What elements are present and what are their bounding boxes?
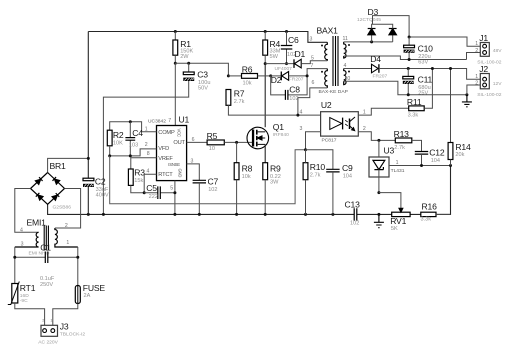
- bridge rectifier BR1: [31, 173, 65, 205]
- svg-text:2: 2: [42, 318, 44, 322]
- BR1 diode bottom-left: [36, 193, 43, 200]
- wire R10/C9 node line: [306, 150, 333, 170]
- svg-text:R10: R10: [310, 162, 326, 172]
- resistor R2: [107, 130, 112, 146]
- wire source to R9: [264, 144, 266, 162]
- node R4 bottom / drain line: [264, 62, 267, 65]
- svg-text:2A: 2A: [84, 293, 91, 299]
- wire RTCT pin4: [144, 174, 156, 193]
- svg-text:C11: C11: [418, 75, 433, 85]
- wire BR1 left AC to EMI pin4: [15, 189, 39, 233]
- node R10 top: [304, 148, 307, 151]
- wire left HV rail down to C2: [87, 32, 89, 179]
- svg-text:FUSE: FUSE: [83, 283, 106, 293]
- svg-text:C5: C5: [146, 183, 157, 193]
- capacitor C4: [129, 122, 131, 156]
- svg-text:R7: R7: [234, 88, 245, 98]
- svg-text:5: 5: [311, 55, 314, 61]
- node C4 top: [129, 120, 132, 123]
- ground at U3: [374, 214, 384, 227]
- svg-text:J3: J3: [60, 321, 69, 331]
- wire C3 bottom to left gnd drop: [103, 81, 188, 214]
- svg-text:C7: C7: [208, 176, 219, 186]
- node U3 anode / RV1 wiper branch: [377, 191, 380, 194]
- node gate/R8: [235, 141, 238, 144]
- thermistor RT1: [12, 284, 18, 304]
- node R4 top: [264, 30, 267, 33]
- wire BR1 plus to HV rail: [48, 158, 89, 172]
- resistor R1: [174, 32, 176, 41]
- resistor R10: [303, 163, 308, 180]
- svg-text:3W: 3W: [270, 180, 279, 186]
- connector J2: [480, 74, 489, 89]
- svg-text:OUT: OUT: [173, 140, 185, 146]
- svg-text:C3: C3: [197, 70, 208, 80]
- svg-text:2.7k: 2.7k: [394, 145, 405, 151]
- inductor EMI1 core: [44, 226, 48, 251]
- wire R1 bottom to R7 top: [175, 63, 228, 76]
- node R7/R6: [227, 74, 230, 77]
- svg-text:D4: D4: [370, 54, 381, 64]
- wire pin11 to D3 anodes: [344, 41, 393, 43]
- capacitor C7: [193, 180, 206, 183]
- svg-text:4: 4: [20, 228, 23, 234]
- svg-text:2: 2: [475, 48, 478, 54]
- svg-text:104: 104: [343, 173, 352, 179]
- capacitor C13 in rail: [354, 208, 357, 220]
- resistor R3: [128, 169, 133, 185]
- wire VREF to R3: [131, 158, 157, 169]
- winding secondary 4-10: [344, 69, 346, 85]
- svg-text:R14: R14: [455, 142, 471, 152]
- wire COMP network top: [110, 122, 157, 132]
- potentiometer RV1: [392, 212, 410, 216]
- wire OUT to R5: [187, 141, 208, 143]
- svg-text:C8: C8: [289, 85, 300, 95]
- svg-text:7: 7: [311, 63, 314, 69]
- svg-text:Q1: Q1: [273, 122, 284, 132]
- svg-text:R2: R2: [113, 130, 124, 140]
- svg-text:BAX-KE DAP: BAX-KE DAP: [319, 89, 348, 95]
- svg-text:COMP: COMP: [158, 130, 175, 136]
- diode D2: [271, 75, 282, 77]
- svg-text:1: 1: [396, 160, 399, 166]
- svg-text:UC3842: UC3842: [148, 119, 166, 125]
- optocoupler U2 PC817: [321, 112, 359, 136]
- wire pin10 / 0V line: [344, 81, 467, 95]
- resistor R4: [264, 32, 266, 41]
- wire U2 pin3 to R10 node: [306, 132, 321, 150]
- wire xfmr pin6 to U2 pin4: [298, 88, 327, 115]
- svg-text:1: 1: [475, 74, 478, 80]
- capacitor C11: [407, 69, 409, 77]
- svg-text:U2: U2: [321, 100, 332, 110]
- diode D4: [372, 64, 379, 73]
- svg-text:TL431: TL431: [391, 168, 405, 174]
- svg-text:R5: R5: [207, 131, 218, 141]
- svg-text:FR207: FR207: [373, 74, 388, 80]
- svg-text:ISNSE: ISNSE: [168, 162, 180, 167]
- svg-text:10k: 10k: [243, 81, 252, 87]
- wire top HV rail: [88, 32, 327, 43]
- wire feedback gray line: [110, 150, 306, 204]
- svg-text:11: 11: [343, 36, 348, 42]
- node U3 cathode: [377, 139, 380, 142]
- svg-text:4: 4: [300, 109, 303, 115]
- resistor R16: [421, 212, 436, 216]
- capacitor C10: [408, 37, 410, 45]
- transformer BAX1 core: [333, 36, 338, 86]
- svg-text:U3: U3: [384, 145, 395, 155]
- svg-text:GND: GND: [178, 169, 183, 178]
- svg-text:102: 102: [208, 187, 217, 193]
- wire U3 ref line: [389, 165, 451, 167]
- node C6 top: [285, 30, 288, 33]
- svg-text:EMI1: EMI1: [27, 217, 47, 227]
- svg-text:1: 1: [50, 318, 52, 322]
- svg-text:BR1: BR1: [50, 161, 67, 171]
- svg-text:2: 2: [145, 142, 148, 148]
- svg-text:1: 1: [66, 240, 69, 246]
- svg-text:R9: R9: [270, 163, 281, 173]
- wire D1 anode line: [265, 63, 293, 65]
- svg-text:C12: C12: [429, 148, 445, 158]
- wire EMI pin3 down: [14, 247, 16, 284]
- resistor R7: [226, 90, 231, 106]
- svg-text:2: 2: [65, 223, 68, 229]
- node D2 anode / C8: [269, 74, 272, 77]
- capacitor C2: [83, 178, 94, 181]
- svg-text:R3: R3: [134, 168, 145, 178]
- capacitor C12: [415, 152, 428, 155]
- winding EMI right: [55, 228, 78, 247]
- svg-text:5K: 5K: [391, 226, 398, 232]
- node R1 bottom: [174, 62, 177, 65]
- svg-text:TBLOCK-I2: TBLOCK-I2: [60, 331, 86, 337]
- capacitor C6: [286, 32, 288, 64]
- svg-text:102: 102: [289, 96, 298, 102]
- resistor R6: [228, 75, 241, 77]
- svg-text:3.3k: 3.3k: [421, 217, 432, 223]
- svg-text:R11: R11: [407, 97, 422, 107]
- svg-text:R6: R6: [242, 65, 253, 75]
- svg-text:C1: C1: [40, 242, 51, 252]
- winding primary aux 7-6: [325, 69, 328, 88]
- svg-text:3: 3: [300, 126, 303, 132]
- svg-text:5: 5: [170, 185, 173, 191]
- winding EMI left: [15, 232, 39, 247]
- svg-text:10k: 10k: [242, 174, 251, 180]
- svg-text:3.3k: 3.3k: [408, 113, 419, 119]
- wire U2 pin2 to U3/R13: [358, 132, 395, 141]
- svg-text:15k: 15k: [134, 178, 143, 184]
- svg-text:R13: R13: [394, 129, 410, 139]
- svg-text:7: 7: [168, 118, 171, 124]
- fuse FUSE: [75, 286, 80, 304]
- winding secondary 11-9: [344, 42, 346, 58]
- svg-text:C6: C6: [288, 35, 299, 45]
- capacitor C1: [15, 256, 78, 258]
- svg-text:FR207: FR207: [289, 77, 304, 83]
- svg-text:VCC: VCC: [177, 129, 182, 137]
- svg-text:2: 2: [363, 126, 366, 132]
- svg-text:1: 1: [363, 109, 366, 115]
- connector J1: [480, 43, 489, 57]
- svg-text:G2SB86: G2SB86: [53, 205, 72, 211]
- svg-text:AC 220V: AC 220V: [38, 339, 58, 345]
- svg-text:BAX1: BAX1: [317, 26, 339, 36]
- wire EMI pin1 down: [77, 247, 79, 286]
- svg-text:RTCT: RTCT: [158, 172, 173, 178]
- main ground rail: [48, 166, 451, 215]
- resistor R5: [207, 140, 224, 145]
- svg-text:RT1: RT1: [20, 283, 36, 293]
- svg-text:10: 10: [209, 146, 215, 152]
- svg-text:63V: 63V: [418, 59, 428, 65]
- wire U1 GND stub: [174, 181, 176, 215]
- svg-text:C4: C4: [132, 128, 143, 138]
- BR1 diode top-left: [35, 177, 42, 184]
- svg-text:2W: 2W: [180, 54, 189, 60]
- svg-text:2.7k: 2.7k: [234, 99, 245, 105]
- svg-text:16D: 16D: [20, 293, 29, 299]
- transistor Q1 IRF840: [247, 127, 269, 149]
- BR1 diode bottom-right: [52, 193, 59, 200]
- svg-text:C9: C9: [342, 163, 353, 173]
- IC U1 UC3842: [157, 126, 187, 181]
- svg-text:J2: J2: [479, 64, 488, 74]
- svg-text:-9C: -9C: [20, 298, 28, 304]
- capacitor C5: [144, 192, 175, 194]
- svg-text:UF4007: UF4007: [275, 66, 293, 72]
- svg-text:1: 1: [475, 41, 478, 47]
- svg-text:C10: C10: [418, 43, 434, 53]
- svg-text:C2: C2: [95, 176, 106, 186]
- svg-text:SIL-100-02: SIL-100-02: [477, 92, 501, 98]
- resistor R11: [409, 106, 425, 111]
- svg-text:2.7k: 2.7k: [310, 173, 321, 179]
- wire drain vertical: [264, 64, 266, 128]
- svg-text:PC817: PC817: [322, 137, 337, 143]
- svg-text:9: 9: [345, 50, 348, 56]
- wire BR1 right AC to EMI pin2: [55, 189, 81, 229]
- svg-text:4: 4: [344, 63, 347, 69]
- ground secondary: [462, 95, 472, 107]
- svg-text:48V: 48V: [493, 48, 502, 54]
- resistor R9: [263, 163, 268, 180]
- svg-text:R16: R16: [422, 202, 438, 212]
- svg-text:8: 8: [147, 151, 150, 157]
- wire 12V rail with D4: [344, 68, 372, 70]
- wire U2 pin1 to R11: [358, 108, 408, 115]
- svg-text:U1: U1: [179, 115, 190, 125]
- BR1 diode top-right: [53, 177, 60, 184]
- resistor R14: [450, 69, 452, 143]
- svg-text:222: 222: [149, 194, 158, 200]
- wire VCC feed down to U1 pin7: [174, 63, 176, 125]
- svg-text:50V: 50V: [198, 85, 208, 91]
- svg-text:3: 3: [310, 37, 313, 43]
- wire pin9 return / C10 minus: [344, 53, 481, 60]
- svg-text:4: 4: [147, 168, 150, 174]
- svg-text:12CTQ045: 12CTQ045: [357, 17, 381, 23]
- svg-text:20k: 20k: [455, 152, 464, 158]
- winding primary 3-5: [325, 42, 328, 61]
- svg-text:D1: D1: [295, 49, 306, 59]
- capacitor C8 snubber: [271, 69, 328, 95]
- wire 48V out line: [409, 37, 480, 46]
- svg-text:6: 6: [312, 80, 315, 86]
- svg-text:2: 2: [475, 81, 478, 87]
- svg-text:10K: 10K: [113, 140, 123, 146]
- wire ISNSE to C7: [187, 164, 200, 180]
- node C4 bottom: [129, 154, 132, 157]
- wire D1 to xfmr pin5: [301, 61, 327, 64]
- svg-text:103: 103: [129, 142, 138, 148]
- node R2 bottom: [108, 154, 111, 157]
- svg-text:RV1: RV1: [390, 216, 406, 226]
- svg-text:VFD: VFD: [158, 146, 169, 152]
- capacitor C9: [326, 169, 339, 172]
- connector J3: [41, 325, 58, 336]
- capacitor C3: [188, 63, 190, 72]
- svg-text:250V: 250V: [40, 282, 53, 288]
- wire VFD line: [110, 149, 157, 156]
- svg-text:104: 104: [431, 158, 440, 164]
- svg-text:C13: C13: [345, 199, 361, 209]
- node R1 top: [174, 30, 177, 33]
- svg-text:IRF840: IRF840: [273, 132, 289, 138]
- regulator U3 TL431: [369, 157, 389, 177]
- svg-text:D2: D2: [271, 75, 282, 85]
- svg-text:J1: J1: [479, 33, 488, 43]
- node C3 top: [187, 62, 190, 65]
- diode D1: [293, 59, 295, 68]
- svg-text:12V: 12V: [493, 81, 502, 87]
- svg-text:5W: 5W: [270, 54, 279, 60]
- svg-text:400V: 400V: [96, 192, 109, 198]
- svg-text:102: 102: [350, 220, 359, 226]
- resistor R8: [236, 142, 238, 162]
- svg-text:25V: 25V: [418, 91, 428, 97]
- svg-text:R8: R8: [242, 163, 253, 173]
- resistor R13: [395, 138, 412, 143]
